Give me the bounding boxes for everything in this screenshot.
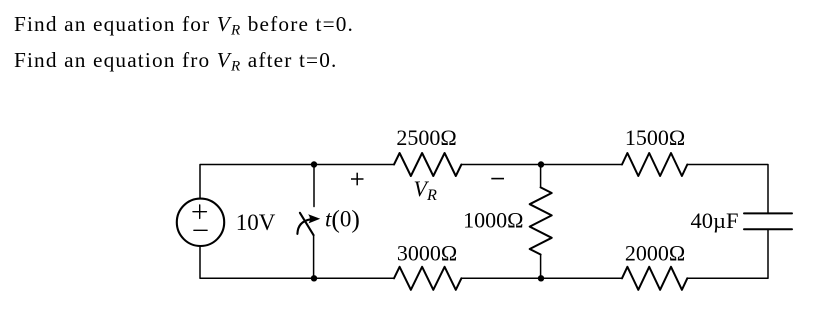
wire: bottom (node B to R2000) bbox=[541, 277, 622, 279]
node dot: top switch node bbox=[311, 161, 317, 167]
label VR polarity plus bbox=[351, 173, 364, 186]
wire: top middle (switch node to R2500) bbox=[314, 164, 394, 166]
svg-text:2000Ω: 2000Ω bbox=[625, 240, 685, 265]
wire: bottom (switch node to R3000) bbox=[314, 277, 394, 279]
node dot: bottom node B bbox=[538, 275, 544, 281]
svg-text:1000Ω: 1000Ω bbox=[463, 207, 523, 232]
svg-text:40µF: 40µF bbox=[691, 208, 739, 233]
wire: middle branch top (node B to R1000) bbox=[540, 165, 542, 188]
resistor 3000 ohm bbox=[394, 267, 461, 290]
wire: bottom-left horizontal (source to switch node) bbox=[200, 246, 314, 278]
wire: switch branch bottom bbox=[313, 235, 315, 278]
wire: top-right corner to capacitor bbox=[687, 165, 768, 214]
wire: middle branch bottom (R1000 to node B') bbox=[540, 255, 542, 279]
voltage source minus sign bbox=[194, 229, 207, 231]
wire: top-left horizontal (source to switch node) bbox=[200, 165, 314, 199]
voltage source plus sign bbox=[193, 205, 206, 218]
svg-text:Find an equation fro VR after: Find an equation fro VR after t=0. bbox=[14, 48, 338, 75]
svg-text:2500Ω: 2500Ω bbox=[396, 125, 456, 150]
svg-text:10V: 10V bbox=[236, 210, 276, 235]
wire: switch branch top bbox=[313, 165, 315, 207]
voltage source V1 circle bbox=[177, 199, 224, 246]
node dot: bottom switch node bbox=[311, 275, 317, 281]
resistor 1000 ohm (vertical) bbox=[530, 187, 552, 254]
switch t(0) blade bbox=[300, 213, 314, 235]
wire: bottom (R3000 to node B) bbox=[461, 277, 541, 279]
node dot: top node B bbox=[538, 161, 544, 167]
resistor 2000 ohm bbox=[622, 267, 687, 290]
svg-text:t(0): t(0) bbox=[325, 205, 360, 234]
svg-text:1500Ω: 1500Ω bbox=[625, 125, 685, 150]
wire: top (node B to R1500) bbox=[541, 164, 622, 166]
label VR polarity minus bbox=[491, 178, 504, 180]
wire: top (R2500 to node B) bbox=[461, 164, 541, 166]
capacitor C1 40uF plates bbox=[744, 212, 792, 214]
resistor 2500 ohm bbox=[394, 153, 461, 176]
svg-text:Find an equation for VR before: Find an equation for VR before t=0. bbox=[14, 12, 354, 39]
wire: capacitor to bottom-right corner bbox=[687, 229, 768, 278]
switch motion arc bbox=[297, 219, 310, 234]
resistor 1500 ohm bbox=[622, 153, 687, 176]
svg-text:3000Ω: 3000Ω bbox=[397, 240, 457, 265]
switch arrowhead bbox=[308, 214, 320, 223]
